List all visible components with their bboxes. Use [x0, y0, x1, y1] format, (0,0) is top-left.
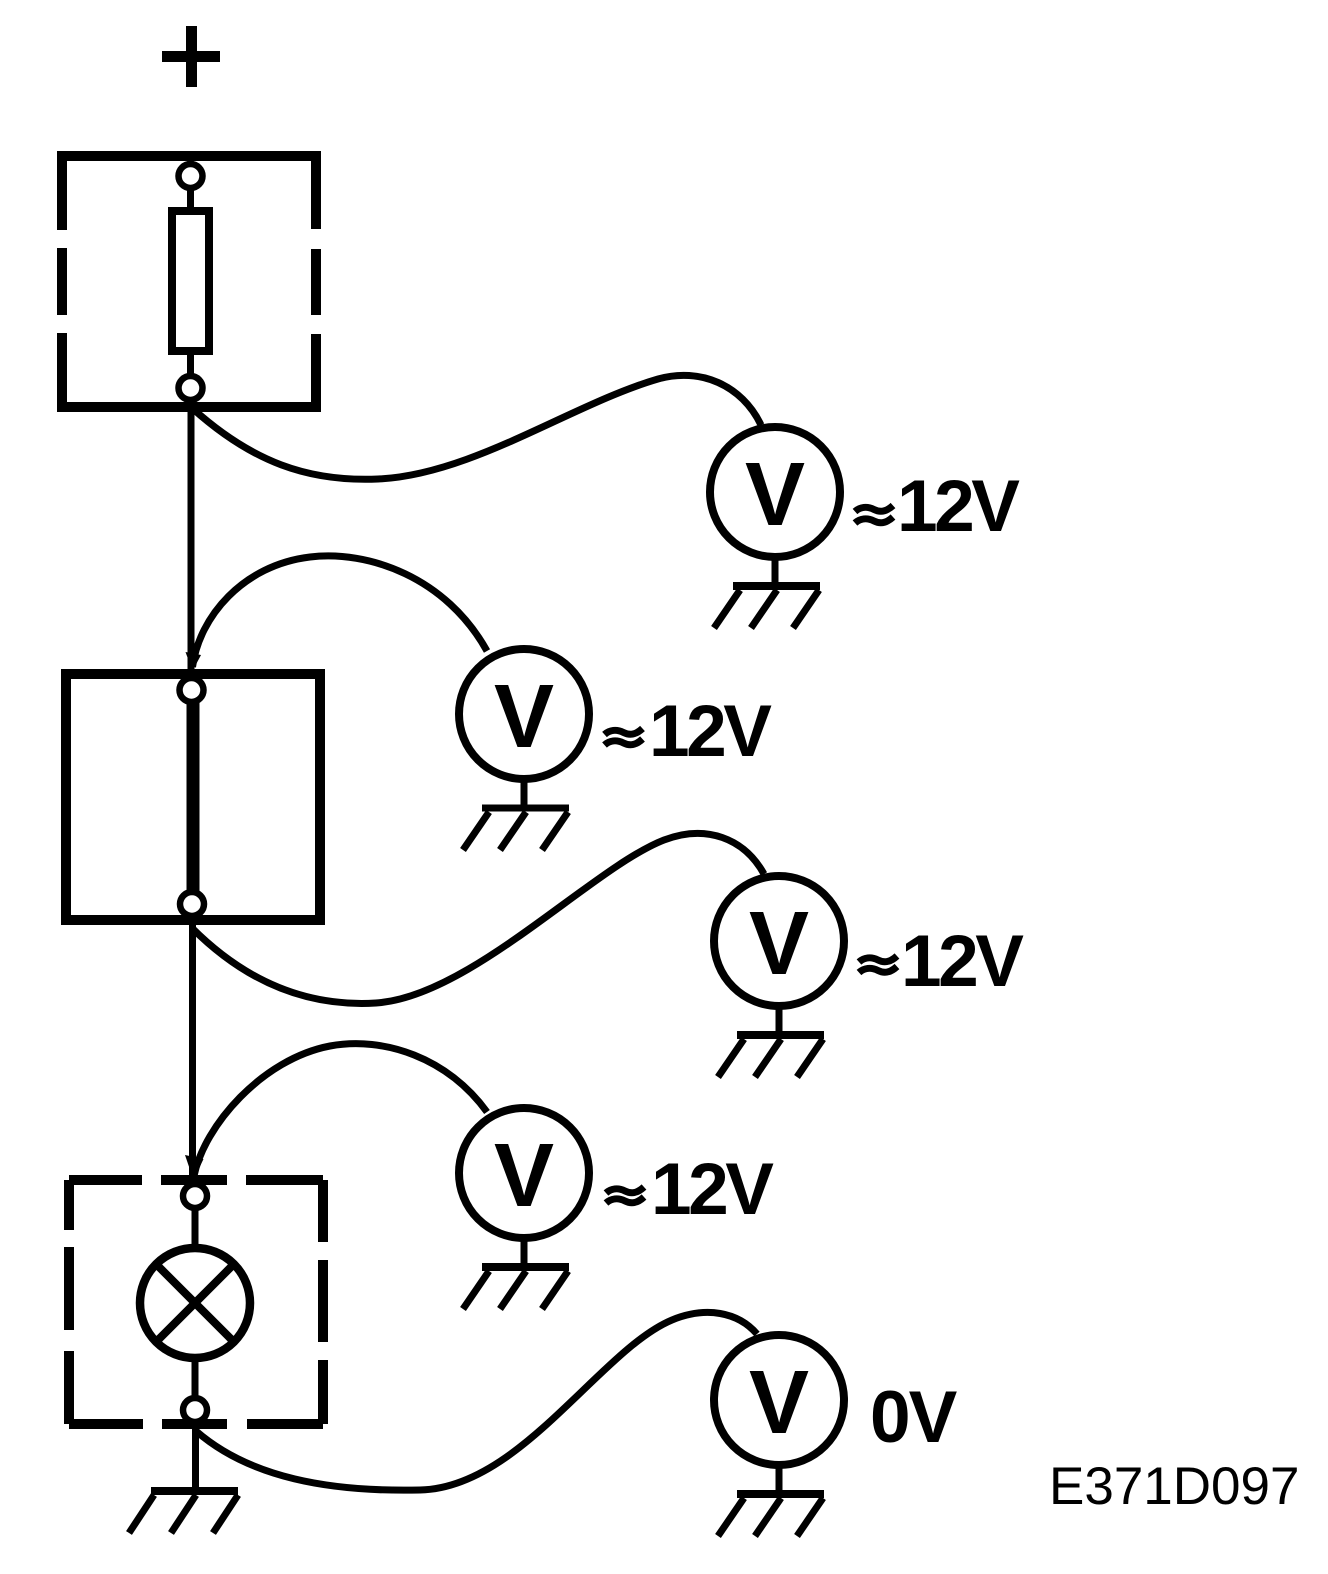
- label ~12V (V2): [605, 729, 643, 746]
- voltmeter V5: [714, 1335, 844, 1536]
- svg-text:E371D097: E371D097: [1049, 1457, 1299, 1516]
- wire: probe lead curve to voltmeter V5: [196, 1312, 757, 1490]
- svg-text:V: V: [494, 667, 554, 767]
- voltmeter V3: [714, 876, 844, 1077]
- wire: probe lead curve to voltmeter V1: [192, 375, 761, 479]
- svg-text:12V: 12V: [897, 466, 1020, 547]
- svg-text:V: V: [494, 1126, 554, 1226]
- wire: node E down to chassis ground: [192, 1421, 199, 1491]
- label ~12V (V3): [859, 956, 897, 973]
- arrowhead of V2 probe at node B: [186, 652, 202, 671]
- voltmeter V4: [459, 1108, 589, 1309]
- voltmeter V2: [459, 649, 589, 850]
- wire: [187, 351, 194, 377]
- wire: [192, 1207, 199, 1252]
- wire: node A (B1 output) down to box B2: [188, 399, 195, 676]
- wire: probe lead curve to voltmeter V2: [193, 556, 488, 667]
- wire: probe lead curve to voltmeter V4: [194, 1044, 487, 1176]
- terminal pin circle (B3 top): [183, 1184, 207, 1208]
- svg-text:12V: 12V: [649, 691, 772, 772]
- wire: node C (B2 output) down to box B3: [189, 915, 196, 1181]
- svg-text:V: V: [749, 1353, 809, 1453]
- svg-text:V: V: [745, 445, 805, 545]
- terminal pin circle (B1 top): [179, 164, 203, 188]
- wire: [187, 187, 194, 212]
- component box B1 (dashed enclosure, fuse): [57, 151, 321, 412]
- svg-text:12V: 12V: [651, 1149, 774, 1230]
- terminal pin circle (B2 bottom): [180, 892, 204, 916]
- svg-text:V: V: [749, 894, 809, 994]
- wire: [192, 1355, 199, 1399]
- label ~12V (V4): [606, 1187, 644, 1203]
- voltmeter V1: [710, 427, 840, 628]
- svg-text:12V: 12V: [901, 921, 1024, 1002]
- terminal pin circle (B1 bottom): [179, 376, 203, 400]
- terminal pin circle (B2 top): [180, 678, 204, 702]
- lamp L (circle with cross): [140, 1248, 250, 1358]
- chassis ground (main, below B3): [129, 1491, 238, 1533]
- arrowhead of V4 probe at node D: [185, 1155, 204, 1180]
- component box B3 (dashed enclosure, lamp): [69, 1180, 323, 1424]
- component box B2 (solid enclosure, closed switch): [66, 674, 320, 920]
- switch closed contact bar: [187, 700, 200, 893]
- terminal pin circle (B3 bottom): [183, 1398, 207, 1422]
- svg-text:0V: 0V: [870, 1377, 958, 1458]
- battery plus terminal: [162, 26, 220, 87]
- label ~12V (V1): [855, 506, 893, 524]
- fuse R (rectangle body): [172, 211, 209, 351]
- wire: probe lead curve to voltmeter V3: [192, 833, 764, 1003]
